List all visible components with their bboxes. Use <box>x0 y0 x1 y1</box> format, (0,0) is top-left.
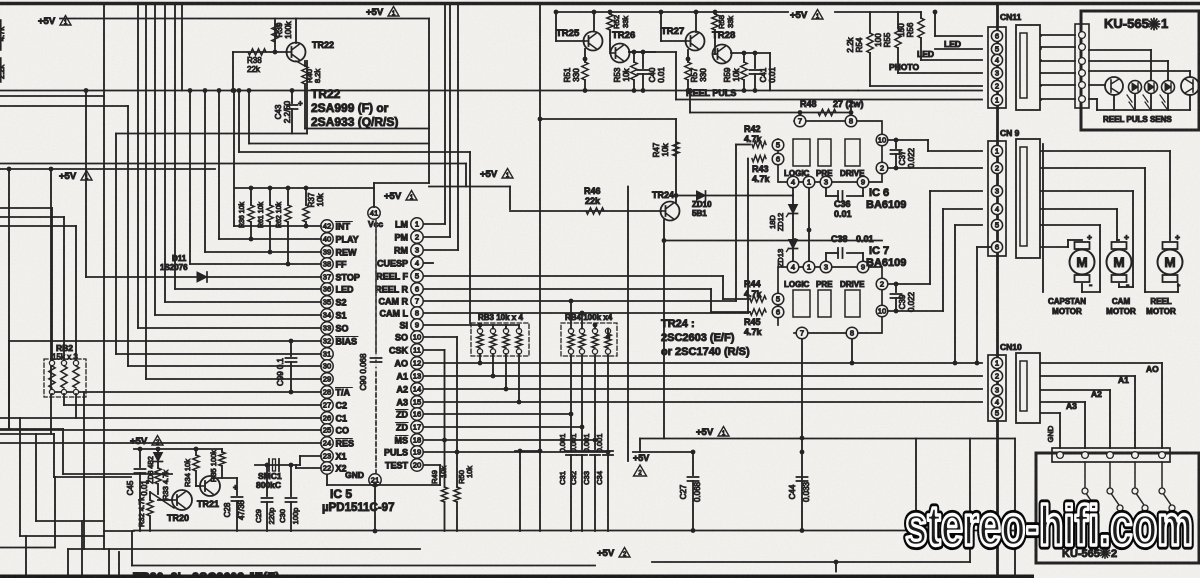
svg-text:5: 5 <box>995 221 999 230</box>
svg-text:MS: MS <box>395 435 409 445</box>
svg-text:0.033: 0.033 <box>802 481 811 502</box>
svg-text:19: 19 <box>413 448 421 457</box>
svg-text:100: 100 <box>874 33 883 47</box>
svg-text:CN11: CN11 <box>1000 12 1022 22</box>
svg-text:C36: C36 <box>834 199 851 209</box>
svg-text:22: 22 <box>323 464 331 473</box>
svg-text:38: 38 <box>323 260 331 269</box>
svg-text:DRIVE: DRIVE <box>840 280 865 289</box>
svg-text:R57: R57 <box>690 67 699 82</box>
svg-text:R45: R45 <box>744 317 761 327</box>
svg-text:1: 1 <box>807 263 811 272</box>
svg-text:REEL PULS SENS: REEL PULS SENS <box>1103 115 1172 124</box>
svg-text:C40: C40 <box>648 67 657 82</box>
svg-text:A2: A2 <box>396 384 408 394</box>
svg-text:0.001: 0.001 <box>582 434 591 453</box>
svg-text:STOP: STOP <box>336 272 360 282</box>
svg-text:+: + <box>298 99 303 108</box>
svg-text:7: 7 <box>415 297 419 306</box>
svg-text:5: 5 <box>995 45 999 54</box>
svg-text:PLAY: PLAY <box>336 234 359 244</box>
svg-text:BA6109: BA6109 <box>866 199 906 211</box>
svg-text:47/35: 47/35 <box>237 499 246 520</box>
svg-text:9: 9 <box>861 263 865 272</box>
svg-text:REEL PULS: REEL PULS <box>686 88 736 98</box>
svg-text:30: 30 <box>323 362 331 371</box>
svg-text:1: 1 <box>995 359 999 368</box>
svg-text:1: 1 <box>995 147 999 156</box>
svg-text:IC 6: IC 6 <box>869 187 889 199</box>
svg-text:10: 10 <box>878 136 886 145</box>
svg-text:+5V: +5V <box>790 10 808 21</box>
svg-text:TR21: TR21 <box>197 499 219 509</box>
svg-text:RM: RM <box>394 245 408 255</box>
svg-text:RB3 10k x 4: RB3 10k x 4 <box>478 313 523 322</box>
svg-text:ZD: ZD <box>396 422 408 432</box>
svg-text:33: 33 <box>323 324 331 333</box>
svg-text:0.022: 0.022 <box>907 291 916 312</box>
svg-text:TR20: TR20 <box>167 513 189 523</box>
svg-text:6: 6 <box>415 285 419 294</box>
svg-text:2: 2 <box>995 164 999 173</box>
svg-text:M: M <box>1076 255 1087 270</box>
svg-text:0.01: 0.01 <box>856 234 874 244</box>
svg-text:R53: R53 <box>613 67 622 82</box>
svg-text:A3: A3 <box>396 397 408 407</box>
svg-text:33k: 33k <box>621 16 630 28</box>
svg-text:C30: C30 <box>278 509 287 523</box>
svg-text:T/A: T/A <box>336 387 351 397</box>
svg-text:LED: LED <box>336 284 355 294</box>
svg-text:+5V: +5V <box>696 427 714 438</box>
svg-text:11: 11 <box>413 346 421 355</box>
svg-text:4: 4 <box>415 259 419 268</box>
svg-text:2.2/50: 2.2/50 <box>283 100 292 123</box>
svg-text:3: 3 <box>824 178 828 187</box>
svg-text:3: 3 <box>995 69 999 78</box>
svg-text:ZD13: ZD13 <box>776 249 785 267</box>
svg-text:1: 1 <box>807 178 811 187</box>
svg-text:C44: C44 <box>788 484 797 499</box>
svg-text:ZD: ZD <box>396 409 408 419</box>
svg-text:10: 10 <box>878 307 886 316</box>
svg-text:S1: S1 <box>336 310 347 320</box>
svg-text:R54: R54 <box>855 37 864 52</box>
svg-text:R38: R38 <box>247 56 262 65</box>
svg-text:42: 42 <box>323 222 331 231</box>
svg-text:A2: A2 <box>1091 389 1102 399</box>
svg-text:0.068: 0.068 <box>693 481 702 502</box>
svg-text:REW: REW <box>336 247 358 257</box>
svg-text:1: 1 <box>995 96 999 105</box>
svg-text:33k: 33k <box>726 16 735 28</box>
svg-text:µPD1511C-97: µPD1511C-97 <box>322 502 394 514</box>
svg-text:KU-565: KU-565 <box>1104 16 1149 31</box>
svg-text:PM: PM <box>395 232 409 242</box>
svg-text:PHOTO: PHOTO <box>889 62 919 72</box>
svg-text:R55: R55 <box>883 32 892 47</box>
svg-text:A3: A3 <box>1066 401 1077 411</box>
svg-text:C41: C41 <box>759 67 768 82</box>
svg-text:GND: GND <box>345 470 364 480</box>
svg-text:M: M <box>1113 255 1124 270</box>
svg-text:stereo-hifi.com: stereo-hifi.com <box>905 494 1193 558</box>
svg-text:27 (2w): 27 (2w) <box>833 99 864 109</box>
svg-text:4.7k: 4.7k <box>744 327 763 337</box>
svg-text:C33: C33 <box>582 471 591 485</box>
svg-text:12: 12 <box>413 359 421 368</box>
svg-text:SO: SO <box>395 332 408 342</box>
svg-text:R49: R49 <box>430 470 439 484</box>
svg-text:MOTOR: MOTOR <box>1052 307 1082 316</box>
svg-text:C2: C2 <box>336 400 348 410</box>
svg-text:C32: C32 <box>569 471 578 485</box>
svg-text:REEL R: REEL R <box>375 284 408 294</box>
svg-text:5: 5 <box>776 295 780 304</box>
svg-text:34: 34 <box>323 311 331 320</box>
svg-text:ZD8 4B2: ZD8 4B2 <box>148 456 155 484</box>
svg-text:or 2SC1740 (R/S): or 2SC1740 (R/S) <box>661 346 750 358</box>
svg-text:14: 14 <box>413 385 421 394</box>
svg-text:+: + <box>233 483 238 492</box>
svg-text:27: 27 <box>323 401 331 410</box>
svg-text:CAM R: CAM R <box>379 296 409 306</box>
svg-text:1: 1 <box>1161 16 1168 31</box>
svg-text:100k: 100k <box>284 20 293 38</box>
svg-text:+5V: +5V <box>130 436 148 447</box>
svg-text:R42: R42 <box>744 124 761 134</box>
svg-text:R34 10k: R34 10k <box>183 459 192 487</box>
svg-text:INT: INT <box>336 221 351 231</box>
svg-text:R51: R51 <box>563 67 572 82</box>
svg-text:4: 4 <box>995 205 999 214</box>
svg-text:IC 5: IC 5 <box>330 487 352 501</box>
svg-text:TR22: TR22 <box>311 87 341 101</box>
svg-text:+5V: +5V <box>366 7 384 18</box>
svg-text:2: 2 <box>995 82 999 91</box>
svg-text:CO: CO <box>336 425 350 435</box>
svg-text:C39: C39 <box>898 294 907 309</box>
svg-text:8.2k: 8.2k <box>313 69 322 83</box>
svg-text:MOTOR: MOTOR <box>1106 307 1136 316</box>
svg-text:AO: AO <box>1146 364 1159 374</box>
svg-text:6: 6 <box>776 308 780 317</box>
svg-text:CUESP: CUESP <box>377 258 408 268</box>
svg-text:TR24: TR24 <box>652 190 674 200</box>
svg-text:C38: C38 <box>831 234 848 244</box>
svg-text:R62 10k: R62 10k <box>276 201 283 228</box>
svg-text:REEL: REEL <box>1150 297 1171 306</box>
svg-text:29: 29 <box>323 375 331 384</box>
svg-text:-: - <box>1126 280 1129 291</box>
svg-text:2: 2 <box>880 164 884 173</box>
svg-text:22k: 22k <box>585 196 601 206</box>
svg-text:7: 7 <box>798 117 802 126</box>
svg-text:2.2k: 2.2k <box>846 36 855 52</box>
svg-text:8: 8 <box>415 309 419 318</box>
svg-text:800kC: 800kC <box>256 480 281 490</box>
svg-text:A1: A1 <box>1118 375 1129 385</box>
svg-text:10k: 10k <box>622 68 631 82</box>
svg-text:5B1: 5B1 <box>692 209 707 218</box>
svg-text:0.001: 0.001 <box>558 434 567 453</box>
svg-text:4: 4 <box>791 263 795 272</box>
svg-text:RB4 100k x4: RB4 100k x4 <box>565 313 613 322</box>
svg-text:REEL F: REEL F <box>376 271 408 281</box>
svg-text:CSK: CSK <box>389 345 409 355</box>
svg-text:1: 1 <box>415 220 419 229</box>
svg-text:+5V: +5V <box>633 453 649 463</box>
svg-text:CN 9: CN 9 <box>1000 128 1020 138</box>
svg-text:26: 26 <box>323 414 331 423</box>
svg-text:-: - <box>1089 280 1092 291</box>
svg-text:2SA999 (F) or: 2SA999 (F) or <box>311 101 389 115</box>
svg-text:R59: R59 <box>723 67 732 82</box>
svg-text:6: 6 <box>995 32 999 41</box>
svg-text:25: 25 <box>323 426 331 435</box>
svg-text:24: 24 <box>323 439 331 448</box>
svg-text:150: 150 <box>897 23 906 37</box>
svg-text:41: 41 <box>370 209 378 218</box>
svg-text:PRE: PRE <box>816 280 833 289</box>
svg-text:9: 9 <box>861 178 865 187</box>
svg-text:TR27: TR27 <box>661 26 684 37</box>
svg-text:3: 3 <box>415 246 419 255</box>
svg-text:16: 16 <box>413 410 421 419</box>
svg-text:10k: 10k <box>661 143 670 157</box>
svg-text:GND: GND <box>1046 425 1055 442</box>
svg-text:0.001: 0.001 <box>595 434 604 453</box>
svg-text:8: 8 <box>849 117 853 126</box>
svg-text:37: 37 <box>323 273 331 282</box>
svg-text:2: 2 <box>995 372 999 381</box>
svg-text:4.7k: 4.7k <box>752 174 771 184</box>
svg-text:X1: X1 <box>336 451 347 461</box>
svg-text:7: 7 <box>800 329 804 338</box>
svg-text:2SC2603 (E/F): 2SC2603 (E/F) <box>661 332 735 344</box>
svg-text:5: 5 <box>995 409 999 418</box>
svg-text:R44: R44 <box>744 279 761 289</box>
svg-text:CAPSTAN: CAPSTAN <box>1048 297 1086 306</box>
svg-text:CAM: CAM <box>1112 297 1131 306</box>
svg-text:6: 6 <box>776 155 780 164</box>
svg-text:31: 31 <box>323 350 331 359</box>
svg-text:DRIVE: DRIVE <box>840 169 865 178</box>
svg-text:TR25: TR25 <box>556 28 580 39</box>
svg-text:330: 330 <box>572 68 581 82</box>
svg-text:C43: C43 <box>274 104 283 119</box>
svg-text:5: 5 <box>415 272 419 281</box>
svg-text:C99 0.1: C99 0.1 <box>276 357 285 386</box>
svg-text:+: + <box>1175 232 1180 242</box>
svg-text:9: 9 <box>415 321 419 330</box>
svg-text:C29: C29 <box>254 509 263 523</box>
svg-text:4: 4 <box>995 398 999 407</box>
svg-text:MOTOR: MOTOR <box>1146 307 1176 316</box>
svg-text:0.001: 0.001 <box>569 434 578 453</box>
svg-text:+5V: +5V <box>384 191 402 202</box>
svg-text:40: 40 <box>323 235 331 244</box>
svg-text:+5V: +5V <box>597 548 615 559</box>
svg-text:+: + <box>1124 232 1129 242</box>
svg-text:6: 6 <box>995 243 999 252</box>
svg-text:R37: R37 <box>307 192 316 207</box>
svg-text:M: M <box>1164 255 1175 270</box>
svg-text:TR28: TR28 <box>712 30 735 41</box>
svg-text:R36 10k: R36 10k <box>239 201 246 228</box>
svg-text:C34: C34 <box>595 471 604 485</box>
svg-text:R39: R39 <box>275 22 284 37</box>
svg-text:0.01: 0.01 <box>657 67 666 83</box>
svg-text:39: 39 <box>323 248 331 257</box>
svg-text:10k: 10k <box>316 193 325 207</box>
svg-text:20: 20 <box>413 461 421 470</box>
svg-text:13: 13 <box>413 372 421 381</box>
svg-text:CN10: CN10 <box>1000 342 1022 352</box>
svg-text:18: 18 <box>413 436 421 445</box>
svg-text:LM: LM <box>395 219 408 229</box>
svg-text:+5V: +5V <box>59 171 77 182</box>
svg-text:0.01: 0.01 <box>834 209 852 219</box>
svg-text:LED: LED <box>944 39 961 49</box>
svg-text:32: 32 <box>323 337 331 346</box>
svg-text:LED: LED <box>917 49 934 59</box>
svg-text:ZD10: ZD10 <box>692 200 712 209</box>
svg-text:ZD12: ZD12 <box>776 213 785 231</box>
svg-text:R56: R56 <box>906 22 915 37</box>
svg-text:SO: SO <box>336 323 349 333</box>
svg-text:10k: 10k <box>465 466 474 478</box>
svg-text:3: 3 <box>995 187 999 196</box>
svg-text:3: 3 <box>995 386 999 395</box>
svg-text:TR22: TR22 <box>312 40 334 50</box>
svg-text:10k: 10k <box>732 68 741 82</box>
svg-text:23: 23 <box>323 452 331 461</box>
svg-text:TEST: TEST <box>385 460 409 470</box>
svg-text:+: + <box>1087 232 1092 242</box>
svg-text:C1: C1 <box>336 413 348 423</box>
svg-text:AO: AO <box>395 358 409 368</box>
svg-text:R43: R43 <box>752 164 769 174</box>
svg-text:2SA933 (Q/R/S): 2SA933 (Q/R/S) <box>311 115 398 129</box>
svg-text:2: 2 <box>415 233 419 242</box>
svg-text:R58: R58 <box>717 15 726 29</box>
svg-text:330: 330 <box>699 68 708 82</box>
svg-text:1S2076: 1S2076 <box>160 263 188 272</box>
svg-text:D11: D11 <box>172 254 187 263</box>
svg-text:18D: 18D <box>768 215 777 229</box>
svg-text:4: 4 <box>995 56 999 65</box>
svg-text:TR26: TR26 <box>612 30 635 41</box>
svg-text:BIAS: BIAS <box>336 336 358 346</box>
svg-text:C27: C27 <box>679 484 688 499</box>
svg-text:10: 10 <box>413 333 421 342</box>
svg-text:0.022: 0.022 <box>907 147 916 168</box>
svg-text:R61 10k: R61 10k <box>258 201 265 228</box>
svg-text:28: 28 <box>323 388 331 397</box>
svg-text:C37: C37 <box>898 150 907 165</box>
svg-text:A1: A1 <box>396 371 408 381</box>
svg-text:R52: R52 <box>612 15 621 29</box>
svg-text:PRE: PRE <box>816 169 833 178</box>
svg-text:C45: C45 <box>126 480 135 495</box>
svg-text:BA6109: BA6109 <box>866 257 906 269</box>
svg-text:2: 2 <box>880 280 884 289</box>
svg-text:TR24 :: TR24 : <box>661 318 695 330</box>
svg-text:3: 3 <box>824 263 828 272</box>
svg-text:17: 17 <box>413 423 421 432</box>
svg-text:+5V: +5V <box>480 169 498 180</box>
svg-text:35: 35 <box>323 298 331 307</box>
svg-text:PULS: PULS <box>384 447 408 457</box>
svg-text:FF: FF <box>336 259 347 269</box>
svg-text:15: 15 <box>413 398 421 407</box>
svg-text:SI: SI <box>399 320 408 330</box>
svg-text:R47: R47 <box>652 142 661 157</box>
svg-text:220p: 220p <box>267 508 276 525</box>
svg-text:LOGIC: LOGIC <box>784 169 810 178</box>
svg-text:C28: C28 <box>223 502 232 517</box>
svg-text:36: 36 <box>323 285 331 294</box>
svg-text:+5V: +5V <box>38 16 56 27</box>
svg-text:R32 4.7k: R32 4.7k <box>137 497 146 527</box>
svg-text:C90 0.068: C90 0.068 <box>359 353 368 390</box>
svg-text:R46: R46 <box>584 186 601 196</box>
svg-text:5: 5 <box>776 141 780 150</box>
svg-text:IC 7: IC 7 <box>869 245 889 257</box>
svg-text:8: 8 <box>850 329 854 338</box>
svg-text:S2: S2 <box>336 297 347 307</box>
svg-text:R48: R48 <box>800 99 817 109</box>
svg-text:RES: RES <box>336 438 355 448</box>
svg-text:100p: 100p <box>291 508 300 525</box>
svg-text:LOGIC: LOGIC <box>784 280 810 289</box>
svg-text:C31: C31 <box>558 471 567 485</box>
svg-text:CAM L: CAM L <box>380 308 409 318</box>
svg-text:22k: 22k <box>247 65 261 74</box>
svg-text:4: 4 <box>791 178 795 187</box>
